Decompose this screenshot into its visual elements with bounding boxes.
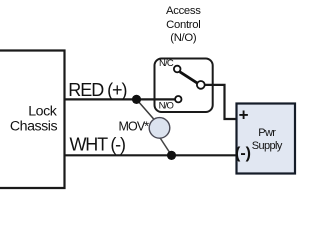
svg-text:Access: Access [166,5,201,17]
svg-text:Chassis: Chassis [10,119,58,135]
svg-text:+: + [239,105,249,124]
svg-text:N/O: N/O [159,101,174,112]
svg-text:(-): (-) [235,145,251,162]
svg-text:Lock: Lock [28,104,58,120]
svg-text:RED (+): RED (+) [68,80,126,100]
svg-text:N/C: N/C [159,58,174,69]
svg-text:MOV*: MOV* [119,120,150,134]
svg-text:(N/O): (N/O) [170,32,197,44]
svg-text:WHT (-): WHT (-) [70,135,125,155]
svg-text:Supply: Supply [252,140,283,152]
svg-text:Pwr: Pwr [258,127,276,139]
svg-text:Control: Control [166,19,200,31]
